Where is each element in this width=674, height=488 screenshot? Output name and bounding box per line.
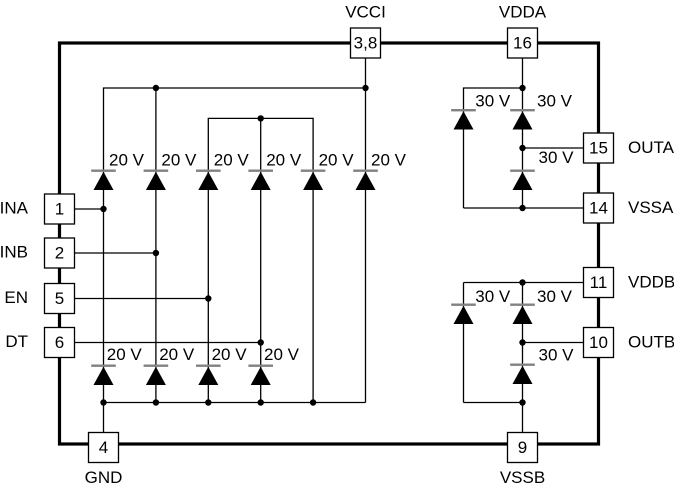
svg-text:20 V: 20 V <box>214 151 250 170</box>
diode D3 20 V (EN clamp to internal rail) <box>196 170 221 191</box>
node EN <box>205 295 211 301</box>
svg-text:2: 2 <box>55 244 64 263</box>
wire VCCI top rail <box>104 88 366 209</box>
wire VSSA rail <box>464 207 584 209</box>
node OUTB <box>519 339 525 345</box>
wire column 6 (VCCI clamp) <box>365 58 367 403</box>
svg-text:OUTA: OUTA <box>628 138 674 157</box>
pin box 11 (VDDB) <box>584 268 614 298</box>
svg-text:20 V: 20 V <box>266 151 302 170</box>
pin box 10 (OUTB) <box>584 328 614 358</box>
svg-text:DT: DT <box>5 332 28 351</box>
node VDDB <box>519 279 525 285</box>
wire OUTA tap <box>523 147 584 149</box>
wire VDDB tap <box>464 282 584 284</box>
diode D16 30 V (OUTB to VSSB) <box>510 364 535 385</box>
wire internal rail (EN/DT clamps) <box>208 118 313 402</box>
IC boundary <box>60 43 599 444</box>
svg-text:1: 1 <box>55 200 64 219</box>
svg-text:20 V: 20 V <box>109 151 145 170</box>
svg-text:VSSA: VSSA <box>628 198 674 217</box>
svg-text:20 V: 20 V <box>212 345 248 364</box>
svg-text:VDDA: VDDA <box>499 3 547 22</box>
node GND rail col3 <box>205 399 211 405</box>
pin box 1 (INA) <box>45 194 75 224</box>
node GND rail col4 <box>258 399 264 405</box>
pin box 14 (VSSA) <box>584 193 614 223</box>
wire VDDA down to node <box>522 58 524 208</box>
pin box 5 (EN) <box>45 284 75 314</box>
svg-text:4: 4 <box>99 438 108 457</box>
svg-text:11: 11 <box>590 273 608 292</box>
node DT <box>258 339 264 345</box>
svg-text:16: 16 <box>513 34 532 53</box>
wire column B main <box>522 283 524 433</box>
diode D2 20 V (INB clamp to VCCI) <box>144 170 169 191</box>
node INB <box>153 250 159 256</box>
svg-text:20 V: 20 V <box>107 345 143 364</box>
diode D4 20 V (DT clamp to internal rail) <box>248 170 273 191</box>
diode D9 20 V (GND to EN) <box>196 365 221 386</box>
pin box 16 (VDDA) <box>508 28 538 58</box>
svg-text:INB: INB <box>0 243 28 262</box>
diode D8 20 V (GND to INB) <box>144 365 169 386</box>
wire bottom GND rail <box>103 209 105 433</box>
wire DT to column 4 <box>75 342 261 344</box>
node INA <box>100 206 106 212</box>
diode D1 20 V (INA clamp to VCCI) <box>91 170 116 191</box>
diode D11 30 V (left clamp A) <box>451 109 476 130</box>
wire column 4 (DT clamp) <box>260 118 262 402</box>
svg-text:30 V: 30 V <box>537 92 573 111</box>
svg-text:OUTB: OUTB <box>628 333 674 352</box>
wire VSSB rail <box>464 402 523 404</box>
svg-text:30 V: 30 V <box>475 92 511 111</box>
svg-text:9: 9 <box>518 438 527 457</box>
svg-text:20 V: 20 V <box>264 345 300 364</box>
svg-text:14: 14 <box>589 199 608 218</box>
pin box 3,8 (VCCI) <box>351 28 381 58</box>
wire VDDA branch to left clamp A <box>464 88 523 208</box>
svg-text:5: 5 <box>55 289 64 308</box>
wire INB to column 2 <box>75 252 156 254</box>
node GND rail col1 <box>100 399 106 405</box>
node OUTA <box>519 145 525 151</box>
svg-text:EN: EN <box>4 288 28 307</box>
diode D14 30 V (left clamp B) <box>451 304 476 325</box>
diode D12 30 V (VDDA clamp) <box>510 109 535 130</box>
wire INA to column 1 <box>75 208 104 210</box>
svg-text:VDDB: VDDB <box>628 273 674 292</box>
node GND rail col2 <box>153 399 159 405</box>
svg-text:30 V: 30 V <box>539 346 575 365</box>
pin box 15 (OUTA) <box>584 133 614 163</box>
node col4/internal rail <box>258 115 264 121</box>
pin box 2 (INB) <box>45 238 75 268</box>
svg-text:VSSB: VSSB <box>500 468 545 487</box>
svg-text:30 V: 30 V <box>537 287 573 306</box>
svg-text:20 V: 20 V <box>371 151 407 170</box>
svg-text:20 V: 20 V <box>161 151 197 170</box>
diode D5 20 V (GND clamp to internal rail) <box>301 170 326 191</box>
node col2/VCCI rail <box>153 85 159 91</box>
svg-text:30 V: 30 V <box>475 287 511 306</box>
svg-text:6: 6 <box>55 333 64 352</box>
svg-text:15: 15 <box>589 139 608 158</box>
svg-text:INA: INA <box>0 199 29 218</box>
pin box 4 (GND) <box>89 433 119 463</box>
diode D13 30 V (OUTA to VSSA) <box>510 170 535 191</box>
pin box 6 (DT) <box>45 328 75 358</box>
svg-text:20 V: 20 V <box>319 151 355 170</box>
diode D15 30 V (VDDB clamp) <box>510 304 535 325</box>
svg-text:20 V: 20 V <box>159 345 195 364</box>
wire EN to column 3 <box>75 298 209 300</box>
diode D7 20 V (GND to INA) <box>91 365 116 386</box>
pin box 9 (VSSB) <box>508 433 538 463</box>
svg-text:VCCI: VCCI <box>345 3 386 22</box>
node GND rail col5 <box>310 399 316 405</box>
svg-text:30 V: 30 V <box>539 148 575 167</box>
node col6/VCCI rail <box>362 85 368 91</box>
svg-text:3,8: 3,8 <box>354 34 378 53</box>
diode D6 20 V (GND clamp to VCCI) <box>353 170 378 191</box>
node VSSA <box>519 205 525 211</box>
wire GND rail horizontal <box>104 402 366 404</box>
wire column 2 (INB clamp) <box>155 88 157 403</box>
wire OUTB tap <box>523 342 584 344</box>
svg-text:10: 10 <box>589 333 608 352</box>
node VDDA <box>519 85 525 91</box>
wire left clamp B <box>463 283 465 403</box>
diode D10 20 V (GND to DT) <box>248 365 273 386</box>
node VSSB <box>519 399 525 405</box>
svg-text:GND: GND <box>85 468 123 487</box>
